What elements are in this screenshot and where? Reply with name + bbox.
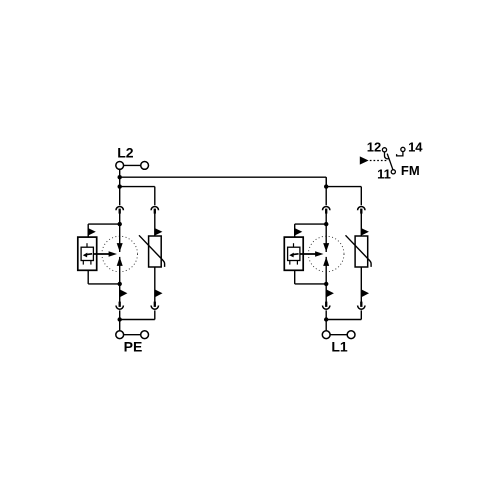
varistor RV1 diagonal [139, 235, 165, 267]
terminal PE circles [116, 331, 149, 339]
svg-text:11: 11 [377, 166, 391, 181]
trigger box U1 bottom stubs [83, 261, 91, 265]
label 12 [367, 139, 381, 154]
node 24 trigger return [324, 282, 328, 286]
label FM [401, 163, 420, 178]
wire branch 1 to varistor limb [120, 187, 155, 206]
spark gap F1 housing (dashed circle) [102, 236, 138, 272]
wire 1 left limb to node 15 [119, 310, 121, 330]
node 22 branch split [324, 184, 328, 188]
terminal L1 circles [322, 331, 355, 339]
spark gap F2 housing (dashed circle) [308, 236, 344, 272]
wire varistor RV1 lower [154, 267, 156, 302]
disconnect contact plug 2C [325, 302, 327, 307]
disconnect contact socket 1A [116, 206, 123, 210]
node 14 trigger return [118, 282, 122, 286]
varistor RV2 body [355, 236, 368, 267]
FM contact 12 circle [382, 148, 386, 152]
spark gap F1 upper electrode [117, 243, 123, 252]
disconnect contact socket 1D [151, 306, 158, 310]
thermal disconnect flag 2 left limb [326, 289, 334, 297]
thermal disconnect flag RV1 top [155, 228, 163, 235]
disconnect contact plug 1B [154, 209, 156, 214]
svg-text:12: 12 [367, 139, 381, 154]
wire limb 1 spark-gap upper [119, 213, 121, 252]
varistor RV2 diagonal [346, 235, 372, 267]
wire limb 1 varistor upper [154, 213, 156, 236]
trigger box U2 bottom stubs [290, 261, 298, 265]
wire feeder 1 [119, 177, 121, 205]
trigger circuit box U2 inner [288, 247, 300, 260]
thermal disconnect flag 1 left limb [120, 289, 128, 297]
wire 2 varistor limb to node 25 [326, 310, 361, 319]
FM contact 14 seat [397, 152, 403, 156]
trigger box U1 top stub [86, 243, 88, 247]
trigger circuit box U1 inner [81, 247, 93, 260]
FM actuator dashed link [370, 160, 389, 162]
svg-text:PE: PE [124, 338, 143, 354]
svg-text:L1: L1 [331, 338, 348, 354]
spark gap F2 upper electrode [323, 243, 329, 252]
spark gap F2 lower electrode [323, 257, 329, 266]
svg-text:FM: FM [401, 163, 420, 178]
thermal disconnect flag RV2 top [361, 228, 369, 235]
wire feeder 2 [325, 177, 327, 205]
node 25 bottom merge [324, 317, 328, 321]
wire bus L2 to right block [120, 177, 327, 186]
trigger circuit box U2 outer [284, 237, 303, 270]
disconnect contact socket 2C [323, 306, 330, 310]
trigger symbol arrow inside U1 [83, 253, 92, 258]
label PE [124, 338, 143, 354]
wire trigger box U2 return [295, 270, 327, 284]
varistor RV1 body [149, 236, 162, 267]
svg-text:L2: L2 [117, 145, 134, 161]
label L1 [331, 338, 348, 354]
disconnect contact plug 1C [119, 302, 121, 307]
FM actuator arrow [360, 156, 369, 164]
trigger firing arrow U2 to spark gap [300, 251, 324, 256]
spark gap F1 lower electrode [117, 257, 123, 266]
trigger firing arrow U1 to spark gap [93, 251, 117, 256]
trigger box U2 top stub [293, 243, 295, 247]
disconnect contact socket 2A [323, 206, 330, 210]
wire L2 terminal to node 11 [119, 169, 121, 177]
thermal disconnect flag T2 top [295, 228, 303, 235]
thermal disconnect flag RV2 bottom [361, 289, 369, 297]
FM contact 14 circle [401, 147, 405, 151]
node 15 bottom merge [118, 317, 122, 321]
thermal disconnect flag T1 top [88, 228, 96, 235]
FM contact 12 seat [384, 152, 389, 159]
disconnect contact plug 1A [119, 209, 121, 214]
FM lever 11-12 [387, 154, 393, 170]
node 13 trigger tap [118, 222, 122, 226]
wire trigger box U1 return [88, 270, 120, 284]
label 14 [408, 139, 423, 154]
disconnect contact socket 2D [358, 306, 365, 310]
disconnect contact socket 1C [116, 306, 123, 310]
wire spark gap 1 lower [119, 257, 121, 302]
disconnect contact plug 2A [325, 209, 327, 214]
node 11 bus tap [118, 175, 122, 179]
wire trigger tap 2 [295, 224, 327, 237]
disconnect contact socket 1B [151, 206, 158, 210]
terminal L2 circles [116, 162, 149, 170]
wire branch 2 to varistor limb [326, 187, 361, 206]
trigger circuit box U1 outer [78, 237, 97, 270]
FM contact 11 circle [391, 170, 395, 174]
wire trigger tap 1 [88, 224, 120, 237]
disconnect contact socket 2B [358, 206, 365, 210]
wire 2 left limb to node 25 [325, 310, 327, 330]
wire varistor RV2 lower [360, 267, 362, 302]
wire spark gap 2 lower [325, 257, 327, 302]
node 23 trigger tap [324, 222, 328, 226]
disconnect contact plug 2D [360, 302, 362, 307]
svg-text:14: 14 [408, 139, 423, 154]
wire 1 varistor limb to node 15 [120, 310, 155, 319]
label L2 [117, 145, 134, 161]
label 11 [377, 166, 391, 181]
thermal disconnect flag RV1 bottom [155, 289, 163, 297]
wire limb 2 spark-gap upper [325, 213, 327, 252]
disconnect contact plug 2B [360, 209, 362, 214]
wire limb 2 varistor upper [360, 213, 362, 236]
trigger symbol arrow inside U2 [289, 253, 298, 258]
disconnect contact plug 1D [154, 302, 156, 307]
node 12 branch split [118, 184, 122, 188]
